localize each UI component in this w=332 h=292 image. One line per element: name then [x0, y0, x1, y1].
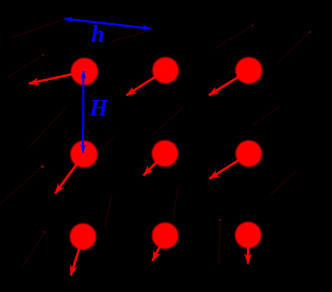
- ghost segment D1: [11, 19, 64, 38]
- ghost segment D2: [8, 55, 43, 78]
- spin site r1c2: [152, 57, 178, 83]
- spin arrow A4: [55, 154, 84, 193]
- spin arrow A5: [143, 154, 165, 176]
- spin site r3c3: [235, 222, 261, 248]
- spin arrow A2: [126, 70, 165, 95]
- spin arrow A3: [209, 71, 249, 96]
- ghost tip dot D6: [41, 165, 44, 168]
- spin site r1c1: [71, 58, 98, 85]
- ghost tip dot D11: [219, 219, 221, 221]
- spin site r2c2: [152, 140, 178, 166]
- spin site r3c2: [152, 223, 178, 249]
- ghost tip dot D7: [43, 231, 45, 233]
- ghost segment D14: [28, 108, 66, 148]
- ghost tip dot D2: [42, 54, 44, 56]
- ghost segment D3: [112, 30, 153, 41]
- ghost tip dot D4: [252, 25, 254, 27]
- spin site r2c3: [236, 140, 262, 166]
- ghost segment D5: [277, 32, 310, 63]
- spin arrow A1: [29, 72, 85, 84]
- svg-text:h: h: [91, 22, 104, 48]
- spin site r3c1: [70, 223, 96, 249]
- ghost segment D11: [219, 220, 220, 264]
- ghost segment D13: [173, 186, 177, 217]
- spin site r1c3: [235, 57, 262, 84]
- ghost segment D4: [215, 26, 253, 49]
- ghost segment D7: [22, 232, 44, 268]
- spin arrow A9: [247, 235, 250, 264]
- spin arrow A7: [71, 237, 83, 276]
- ghost tip dot D5: [309, 31, 311, 33]
- spin arrow A6: [209, 154, 248, 179]
- ghost segment D10: [252, 107, 279, 126]
- lattice spacing arrow h: [65, 19, 152, 29]
- ghost segment D12: [105, 195, 113, 227]
- ghost segment D8: [153, 107, 183, 135]
- ghost segment D6: [0, 167, 43, 204]
- ghost segment D15: [270, 170, 296, 195]
- spin site r2c1: [70, 141, 97, 168]
- svg-text:H: H: [89, 95, 109, 121]
- field arrow H: [82, 71, 84, 153]
- ghost segment D9: [100, 136, 115, 151]
- spin arrow A8: [153, 236, 166, 261]
